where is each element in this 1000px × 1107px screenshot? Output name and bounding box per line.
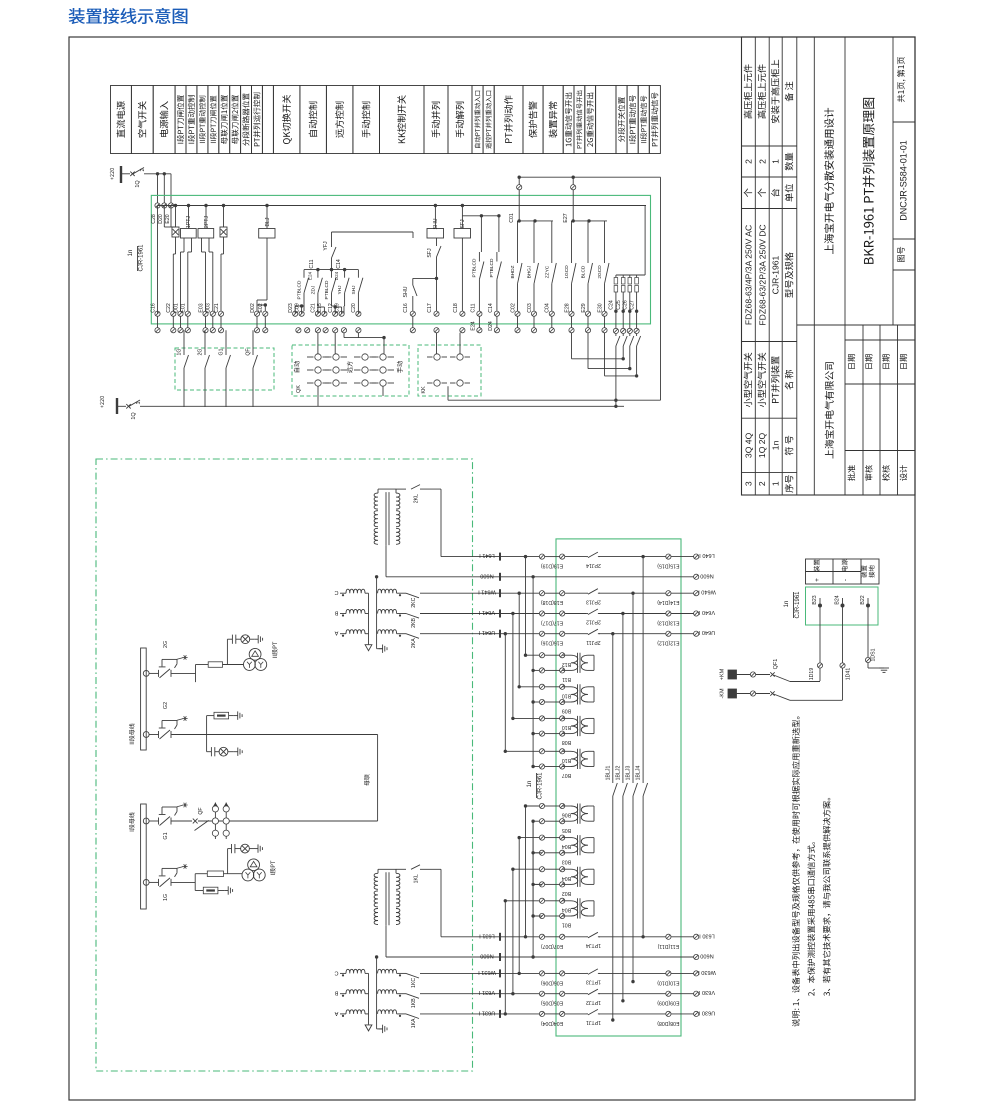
svg-text:B10: B10 (562, 757, 571, 763)
switch group 1G 2G G1 QF (183, 330, 185, 355)
diode block ZD2 (220, 227, 227, 237)
PT symbol I (248, 859, 260, 871)
relay feed wires from bus (188, 206, 190, 229)
bypass contacts 1BLJ1-4 (611, 632, 614, 635)
svg-text:+: + (814, 578, 821, 582)
svg-text:B12: B12 (562, 661, 571, 667)
svg-text:D03: D03 (206, 303, 212, 313)
arrester branch G2 up (206, 716, 208, 735)
top loop wire right (519, 176, 660, 178)
wire KL to L row (396, 488, 406, 490)
svg-text:C24: C24 (609, 300, 615, 310)
svg-text:B: B (334, 610, 338, 616)
svg-text:C01: C01 (509, 213, 515, 223)
surge cap lamp branch II upper (226, 639, 228, 664)
svg-text:E29: E29 (581, 303, 587, 312)
svg-text:QK: QK (296, 385, 302, 393)
terminals C28 D20 E20 (155, 203, 160, 208)
svg-text:C26: C26 (623, 300, 629, 310)
svg-text:2: 2 (140, 168, 146, 171)
svg-text:E18(D18): E18(D18) (541, 599, 563, 605)
svg-text:KK: KK (421, 386, 427, 394)
PT secondary row N600 (386, 956, 694, 958)
svg-text:B04: B04 (562, 843, 571, 849)
middle cluster crossbar C11 C14 (304, 269, 358, 271)
PT secondary row V631 I (420, 993, 542, 995)
switch 1Q upper (130, 172, 134, 176)
svg-text:1BLJ4: 1BLJ4 (636, 766, 642, 781)
wires to QF1 (819, 606, 821, 682)
svg-text:1: 1 (136, 401, 142, 404)
svg-text:B08: B08 (562, 739, 571, 745)
PT secondary row L641 I (441, 556, 542, 558)
contact chain PTBLCD ZDJ PTBLCD YHJ SHJ (303, 270, 305, 278)
svg-text:2KA: 2KA (411, 638, 417, 648)
BLJ output wires (266, 238, 268, 300)
svg-text:1PTJ4: 1PTJ4 (586, 942, 601, 948)
top bus wire (158, 205, 647, 207)
svg-text:C28: C28 (151, 214, 157, 224)
svg-text:V630 I: V630 I (698, 989, 715, 995)
svg-text:2PJ13: 2PJ13 (586, 598, 601, 604)
svg-text:D24: D24 (488, 321, 494, 331)
svg-text:1BLJ2: 1BLJ2 (615, 766, 621, 781)
svg-text:1PTJ3: 1PTJ3 (586, 979, 601, 985)
svg-text:YFJ: YFJ (323, 241, 329, 251)
svg-text:E24: E24 (308, 271, 313, 280)
svg-text:E13(D13): E13(D13) (657, 620, 679, 626)
CT group lower (526, 805, 543, 807)
svg-text:W640 I: W640 I (698, 589, 716, 595)
svg-text:U630 I: U630 I (698, 1009, 715, 1015)
svg-text:1n: 1n (527, 781, 533, 788)
bus I section bar (141, 804, 147, 909)
svg-text:QF: QF (246, 348, 252, 355)
phase winding 2KC (340, 592, 346, 594)
PTBLCD pair columns C11 C14 (462, 215, 499, 217)
svg-text:C14: C14 (488, 303, 494, 313)
svg-text:SHU: SHU (403, 286, 409, 297)
svg-text:C02: C02 (510, 303, 516, 313)
svg-text:C18: C18 (453, 303, 459, 313)
bus tie wire (377, 735, 379, 822)
svg-text:B11: B11 (562, 676, 571, 682)
cap lamp branch I (227, 849, 229, 874)
svg-text:2PJ11: 2PJ11 (586, 639, 600, 645)
svg-text:1Q 2Q: 1Q 2Q (757, 432, 767, 458)
current transformer (562, 750, 571, 752)
svg-text:E08(D08): E08(D08) (657, 1020, 679, 1026)
fuse 2G branch (208, 662, 222, 668)
current transformer (562, 686, 571, 688)
title block (742, 37, 916, 495)
wire KL to L row (396, 868, 406, 870)
current transformer (562, 868, 571, 870)
contacts below C24-C27 (615, 334, 617, 337)
svg-text:1D41: 1D41 (846, 668, 852, 681)
C01 feed chain BHDZ BHGJ ZZYC (519, 220, 553, 222)
battery -220 lower (100, 396, 104, 408)
svg-text:E28: E28 (564, 303, 570, 312)
stub C01 (518, 177, 520, 221)
svg-text:B22: B22 (860, 595, 866, 604)
svg-text:C16: C16 (403, 303, 409, 313)
branch split 2G (195, 665, 197, 683)
terminal row labels group1 (155, 311, 160, 316)
svg-text:L631 I: L631 I (479, 932, 495, 938)
svg-text:1KC: 1KC (411, 978, 417, 988)
svg-text:L640 I: L640 I (699, 552, 715, 558)
svg-text:2KL: 2KL (414, 494, 420, 503)
svg-text:SFJ: SFJ (460, 219, 466, 229)
svg-text:E07(D07): E07(D07) (541, 943, 563, 949)
svg-text:CJR-1961: CJR-1961 (538, 772, 544, 800)
svg-text:C20: C20 (351, 303, 357, 313)
phase winding 1KC (340, 972, 346, 974)
KK dashed box (418, 345, 481, 396)
svg-text:FDZ68-63/4P/3A 250V AC: FDZ68-63/4P/3A 250V AC (743, 225, 753, 325)
breaker QF (193, 819, 198, 824)
middle terminal row (293, 311, 298, 316)
KL bottom to N row (385, 545, 387, 577)
QK box feed wires (317, 333, 319, 354)
tall green device box (556, 539, 681, 1036)
KM supply marks (728, 670, 737, 679)
svg-text:U641 I: U641 I (478, 629, 495, 635)
svg-text:1PTJ2: 1PTJ2 (586, 999, 601, 1005)
svg-text:1PTJ: 1PTJ (186, 216, 192, 229)
svg-text:D23: D23 (288, 303, 294, 313)
svg-text:N600: N600 (700, 953, 713, 959)
svg-text:D20: D20 (158, 214, 164, 224)
svg-text:C11: C11 (309, 259, 315, 268)
disconnect 2G (143, 671, 149, 677)
svg-text:A: A (334, 630, 338, 636)
svg-text:C16: C16 (150, 303, 156, 313)
svg-text:N600: N600 (700, 572, 713, 578)
svg-text:B02: B02 (562, 890, 571, 896)
svg-text:2KC: 2KC (411, 597, 417, 607)
svg-text:2PJ14: 2PJ14 (586, 562, 601, 568)
svg-text:C: C (334, 969, 338, 975)
svg-text:ZZYC: ZZYC (544, 265, 550, 278)
diode block ZD1 (172, 227, 179, 237)
big dashed green box (96, 459, 473, 1071)
svg-text:B04: B04 (562, 906, 571, 912)
input columns to diode cluster (163, 206, 165, 228)
svg-text:2: 2 (757, 159, 767, 164)
svg-text:3: 3 (743, 481, 753, 486)
QK contact matrix (315, 354, 321, 360)
disconnect G2 (143, 732, 149, 738)
svg-text:B01: B01 (562, 922, 571, 928)
column C17 with SFJ contact (436, 238, 438, 246)
PT secondary row L631 I (441, 936, 542, 938)
current transformer (562, 837, 571, 839)
disconnect 1G (143, 880, 149, 886)
svg-text:B05: B05 (562, 827, 571, 833)
svg-text:1KL: 1KL (414, 874, 420, 883)
winding block KL (374, 873, 378, 924)
svg-text:1Q: 1Q (131, 412, 137, 420)
svg-text:D02: D02 (250, 303, 256, 313)
svg-text:ZDJ: ZDJ (310, 285, 316, 294)
svg-text:1n: 1n (784, 601, 790, 608)
breaker aux circle grid (214, 803, 216, 840)
svg-text:B09: B09 (562, 708, 571, 714)
svg-text:CJR-1961: CJR-1961 (771, 255, 781, 294)
phase winding 2KB (340, 613, 346, 615)
function label row (111, 86, 132, 154)
svg-text:2GCD: 2GCD (597, 265, 603, 279)
aux linkage (162, 867, 177, 869)
wire C16 column (157, 206, 159, 314)
resistor columns C24-C27 (644, 206, 646, 276)
page heading 装置接线示意图 (69, 8, 187, 24)
aux linkage (162, 720, 177, 722)
notes text (792, 717, 800, 1027)
svg-text:E27: E27 (563, 213, 569, 222)
svg-text:B10: B10 (562, 724, 571, 730)
E27 feed chain 1GCD BLCD 2GCD (573, 220, 607, 222)
svg-text:E05(D05): E05(D05) (541, 1000, 563, 1006)
svg-text:V631 I: V631 I (478, 989, 495, 995)
svg-text:2: 2 (743, 159, 753, 164)
svg-text:E19(D19): E19(D19) (541, 563, 563, 569)
svg-text:1G: 1G (177, 349, 183, 356)
svg-text:1PTJ1: 1PTJ1 (586, 1019, 601, 1025)
feeder verticals upper (524, 555, 527, 558)
svg-text:D24: D24 (334, 271, 339, 280)
svg-text:G1: G1 (163, 832, 169, 839)
svg-text:E20: E20 (165, 214, 171, 223)
design org title (824, 108, 834, 254)
secondary neutral line to ground (376, 577, 378, 649)
sheet number cells (897, 57, 905, 102)
svg-text:U640 I: U640 I (698, 629, 715, 635)
svg-text:YHJ: YHJ (337, 285, 343, 295)
svg-text:SHJ: SHJ (351, 285, 357, 295)
svg-text:V641 I: V641 I (478, 609, 495, 615)
branch split 1G (194, 874, 196, 891)
disconnect G1 (143, 818, 149, 824)
current transformer (562, 654, 571, 656)
aux linkage (162, 806, 177, 808)
svg-text:QF1: QF1 (773, 659, 779, 670)
svg-text:-KM: -KM (720, 688, 726, 699)
svg-text:E02: E02 (258, 303, 264, 312)
left dashed group box (175, 348, 274, 390)
svg-text:1G: 1G (163, 894, 169, 901)
svg-text:CJR-1961: CJR-1961 (795, 591, 801, 619)
svg-text:E24: E24 (470, 321, 476, 330)
svg-text:C22: C22 (166, 303, 172, 313)
current transformer (562, 805, 571, 807)
svg-text:2G: 2G (198, 349, 204, 356)
svg-text:N600: N600 (480, 953, 493, 959)
relay BLJ (259, 229, 275, 239)
svg-text:B24: B24 (835, 595, 841, 604)
svg-text:E06(D06): E06(D06) (541, 979, 563, 985)
svg-text:B23: B23 (812, 595, 818, 604)
svg-text:C25: C25 (616, 300, 622, 310)
svg-text:1Q: 1Q (135, 180, 141, 188)
svg-text:2KB: 2KB (411, 618, 417, 628)
column C18 (461, 238, 463, 314)
svg-text:E09(D09): E09(D09) (657, 1000, 679, 1006)
svg-text:1KB: 1KB (411, 998, 417, 1008)
bus II section bar (141, 648, 147, 750)
relay 1PTJ (181, 229, 197, 239)
svg-text:E12(D12): E12(D12) (657, 640, 679, 646)
svg-text:1KA: 1KA (411, 1018, 417, 1028)
svg-text:U631 I: U631 I (478, 1009, 495, 1015)
svg-text:B04: B04 (562, 875, 571, 881)
aux linkage (162, 658, 177, 660)
PT secondary row V641 I (420, 613, 542, 615)
power green box (806, 587, 879, 625)
contact SHU right (412, 296, 414, 314)
svg-text:W630 I: W630 I (698, 969, 716, 975)
svg-text:C21: C21 (214, 303, 220, 313)
secondary neutral line to ground (376, 957, 378, 1029)
battery +220 upper (110, 168, 114, 180)
primary star line with arrow (368, 593, 370, 644)
svg-text:2PTJ: 2PTJ (204, 216, 210, 229)
svg-text:C03: C03 (527, 303, 533, 313)
svg-text:E11(D11): E11(D11) (657, 943, 679, 949)
wire drops to input terminals (157, 174, 159, 206)
svg-text:1n: 1n (771, 440, 781, 450)
stub E27 (572, 177, 574, 221)
svg-text:BHDZ: BHDZ (510, 265, 516, 278)
relay output wires group1 (183, 238, 185, 252)
svg-text:C: C (334, 589, 338, 595)
svg-text:-: - (842, 579, 849, 581)
svg-text:C17: C17 (427, 303, 433, 313)
equipment table text (744, 64, 752, 118)
svg-text:1: 1 (771, 481, 781, 486)
svg-text:+KM: +KM (720, 668, 726, 680)
svg-text:DNCJR-S584-01-01: DNCJR-S584-01-01 (899, 140, 909, 221)
PT secondary row W631 I (420, 972, 542, 974)
svg-text:E03: E03 (198, 303, 204, 312)
fuse 1G branch (207, 871, 223, 877)
svg-text:PTBLCD: PTBLCD (471, 258, 477, 277)
middle dashed QK box (292, 345, 409, 396)
relay SFJ (454, 229, 471, 239)
svg-text:E16(D16): E16(D16) (541, 640, 563, 646)
phase winding 1KB (340, 993, 346, 995)
svg-text:A: A (334, 1010, 338, 1016)
svg-text:2: 2 (757, 481, 767, 486)
svg-text:C27: C27 (629, 300, 635, 310)
svg-text:C12: C12 (328, 303, 334, 313)
svg-text:PTBLCD: PTBLCD (324, 280, 330, 299)
svg-text:1BLJ1: 1BLJ1 (605, 766, 611, 781)
svg-text:2G: 2G (163, 641, 169, 648)
svg-text:1GCD: 1GCD (564, 265, 570, 279)
svg-text:C11: C11 (470, 303, 476, 312)
contact YFJ (331, 240, 333, 247)
PT secondary row U631 I (420, 1013, 542, 1015)
svg-text:V640 I: V640 I (698, 609, 715, 615)
svg-text:BLCD: BLCD (581, 265, 587, 278)
svg-text:E04(D04): E04(D04) (541, 1020, 563, 1026)
feeder verticals lower (up to CTs) (525, 806, 527, 937)
title area lines (796, 37, 798, 495)
svg-text:B06: B06 (562, 812, 571, 818)
svg-text:3Q 4Q: 3Q 4Q (743, 432, 753, 458)
svg-text:E17(D17): E17(D17) (541, 620, 563, 626)
power table 装置电源 (806, 559, 880, 584)
svg-text:PTBLCD: PTBLCD (489, 258, 495, 277)
svg-text:1D19: 1D19 (809, 668, 815, 681)
svg-text:E01: E01 (181, 303, 187, 312)
svg-text:G2: G2 (163, 702, 169, 709)
company cell (825, 362, 834, 458)
PT secondary row W641 I (420, 592, 542, 594)
svg-text:E30: E30 (597, 303, 603, 312)
svg-text:E10(D10): E10(D10) (657, 979, 679, 985)
svg-text:D01: D01 (173, 303, 179, 313)
svg-text:1n: 1n (128, 250, 134, 257)
svg-text:1: 1 (771, 159, 781, 164)
phase winding 2KA (340, 633, 346, 635)
svg-text:1DS1: 1DS1 (871, 648, 877, 661)
current transformer (562, 900, 571, 902)
KL bottom to N row (385, 925, 387, 957)
winding block KL (374, 493, 378, 544)
svg-text:B03: B03 (562, 858, 571, 864)
PT secondary row N600 (386, 576, 694, 578)
svg-text:W631 I: W631 I (478, 969, 496, 975)
CT group upper (526, 654, 543, 656)
svg-text:SFJ: SFJ (427, 248, 433, 258)
PT symbol II (249, 648, 261, 660)
svg-text:C04: C04 (545, 303, 551, 313)
current transformer (562, 717, 571, 719)
svg-text:L641 I: L641 I (479, 552, 495, 558)
arrester branch I down (195, 890, 203, 892)
svg-text:BLJ: BLJ (265, 217, 271, 226)
svg-text:1BLJ3: 1BLJ3 (626, 766, 632, 781)
bottom bus wire (140, 405, 616, 407)
svg-text:2PJ12: 2PJ12 (586, 619, 601, 625)
green device box control (151, 195, 650, 324)
svg-text:BHGJ: BHGJ (527, 265, 533, 278)
svg-text:B07: B07 (562, 772, 571, 778)
relay SHU (427, 229, 444, 239)
phase winding 1KA (340, 1013, 346, 1015)
svg-text:C21: C21 (311, 303, 317, 313)
svg-text:W641 I: W641 I (478, 589, 496, 595)
svg-text:FDZ68-63/2P/3A 250V DC: FDZ68-63/2P/3A 250V DC (757, 224, 767, 325)
svg-text:B: B (334, 990, 338, 996)
primary star line with arrow (368, 973, 370, 1024)
drawing title BKR-1961 (863, 98, 875, 264)
cap lamp branch G2 down (206, 735, 208, 752)
svg-text:SHU: SHU (433, 218, 439, 229)
svg-text:CJR-1961: CJR-1961 (139, 244, 145, 272)
svg-text:QF: QF (198, 807, 204, 814)
svg-text:B10: B10 (562, 692, 571, 698)
svg-text:PTBLCD: PTBLCD (297, 280, 303, 299)
svg-text:E14(D14): E14(D14) (657, 599, 679, 605)
relay 2PTJ (198, 229, 214, 239)
svg-text:C14: C14 (336, 259, 342, 269)
step wires E28-C25 etc (571, 333, 573, 359)
